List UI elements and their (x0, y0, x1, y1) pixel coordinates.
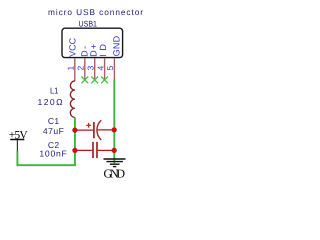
wire: bottom horizontal to +5V (17, 164, 76, 166)
pin name GND (111, 35, 121, 56)
svg-text:47uF: 47uF (43, 126, 64, 136)
capacitor C1 plus sign (86, 123, 91, 128)
pin number 1 (66, 66, 76, 71)
svg-text:C1: C1 (48, 116, 59, 126)
pin number 3 (85, 66, 95, 71)
pin name D- (79, 46, 89, 57)
svg-text:100nF: 100nF (39, 149, 66, 159)
pin 2 stub (84, 58, 86, 80)
no-connect X on pin 4 (101, 77, 108, 84)
capacitor C1 right lead (98, 129, 115, 131)
svg-text:3: 3 (85, 66, 95, 71)
junction dot left C2 (72, 148, 77, 153)
inductor L1 coil (70, 81, 75, 117)
power +5V bar (10, 139, 24, 141)
pin name ID (98, 44, 108, 57)
svg-text:4: 4 (95, 66, 105, 71)
pin number 4 (95, 66, 105, 71)
wire: GND vertical (right) (113, 80, 115, 164)
no-connect X on pin 3 (91, 77, 98, 84)
svg-text:1: 1 (66, 66, 76, 71)
capacitor C1 straight plate (93, 122, 95, 138)
svg-text:VCC: VCC (67, 37, 77, 57)
capacitor C2 right lead (98, 149, 114, 151)
wire: VCC vertical (left) (74, 117, 76, 166)
pin 4 stub (104, 58, 106, 80)
capacitor C2 left plate (92, 142, 94, 158)
svg-text:2: 2 (76, 66, 86, 71)
svg-text:GND: GND (111, 35, 121, 56)
pin number 2 (76, 66, 86, 71)
pin 1 stub (74, 58, 76, 81)
connector USB1 body box (62, 28, 123, 57)
pin name D+ (89, 44, 99, 57)
no-connect X on pin 2 (81, 77, 88, 84)
capacitor C2 left lead (75, 149, 92, 151)
ground symbol bar 2 (106, 161, 123, 163)
pin name VCC (67, 37, 77, 57)
pin 3 stub (94, 58, 96, 80)
capacitor C1 curved plate (97, 120, 101, 140)
svg-text:GND: GND (104, 167, 126, 181)
svg-text:120Ω: 120Ω (38, 97, 64, 107)
power +5V stem (16, 140, 18, 152)
pin number 5 (105, 66, 115, 71)
ground symbol bar 4 (113, 166, 116, 168)
capacitor C1 left lead (75, 129, 93, 131)
svg-text:L1: L1 (50, 86, 59, 96)
pin 5 stub (113, 58, 115, 79)
wire: +5V riser (16, 151, 18, 166)
svg-text:5: 5 (105, 66, 115, 71)
junction dot right C2 (112, 148, 117, 153)
svg-text:ID: ID (98, 44, 108, 57)
junction dot right C1 (112, 127, 117, 132)
svg-text:micro USB connector: micro USB connector (48, 7, 143, 17)
ground symbol bar 1 (104, 158, 126, 160)
ground symbol bar 3 (110, 163, 120, 165)
junction dot left C1 (72, 128, 77, 133)
capacitor C2 right plate (96, 142, 98, 158)
svg-text:USB1: USB1 (79, 20, 98, 29)
